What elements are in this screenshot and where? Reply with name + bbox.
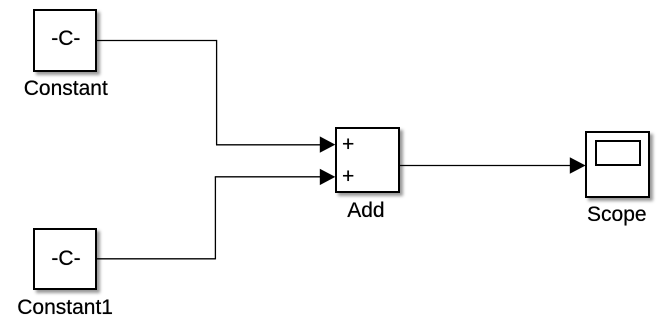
value label -C- (Constant1) [51, 247, 80, 271]
wire W1b vertical drop [216, 40, 218, 145]
label Scope [587, 203, 647, 227]
wire W2c into Add input 2 [215, 176, 321, 178]
wire W1c into Add input 1 [216, 144, 321, 146]
op Add block [335, 127, 400, 193]
wire W3 Add output to Scope [400, 165, 572, 167]
block Scope [585, 131, 650, 198]
arrowhead into Add port 2 [320, 169, 336, 185]
plus sign port 1 [342, 133, 354, 157]
value label -C- (Constant) [51, 27, 80, 51]
label Constant [24, 77, 108, 101]
block Constant1 [33, 228, 97, 290]
label Constant1 [17, 296, 113, 320]
block Constant [33, 9, 97, 72]
arrowhead into Scope port [570, 157, 586, 173]
scope screen inner rect [595, 140, 642, 166]
plus sign port 2 [342, 165, 354, 189]
label Add [347, 199, 384, 223]
wire W2b vertical rise [214, 177, 216, 260]
wire W2a Constant1 output horizontal [96, 258, 215, 260]
wire W1a Constant output horizontal [96, 40, 217, 42]
arrowhead into Add port 1 [320, 136, 336, 152]
